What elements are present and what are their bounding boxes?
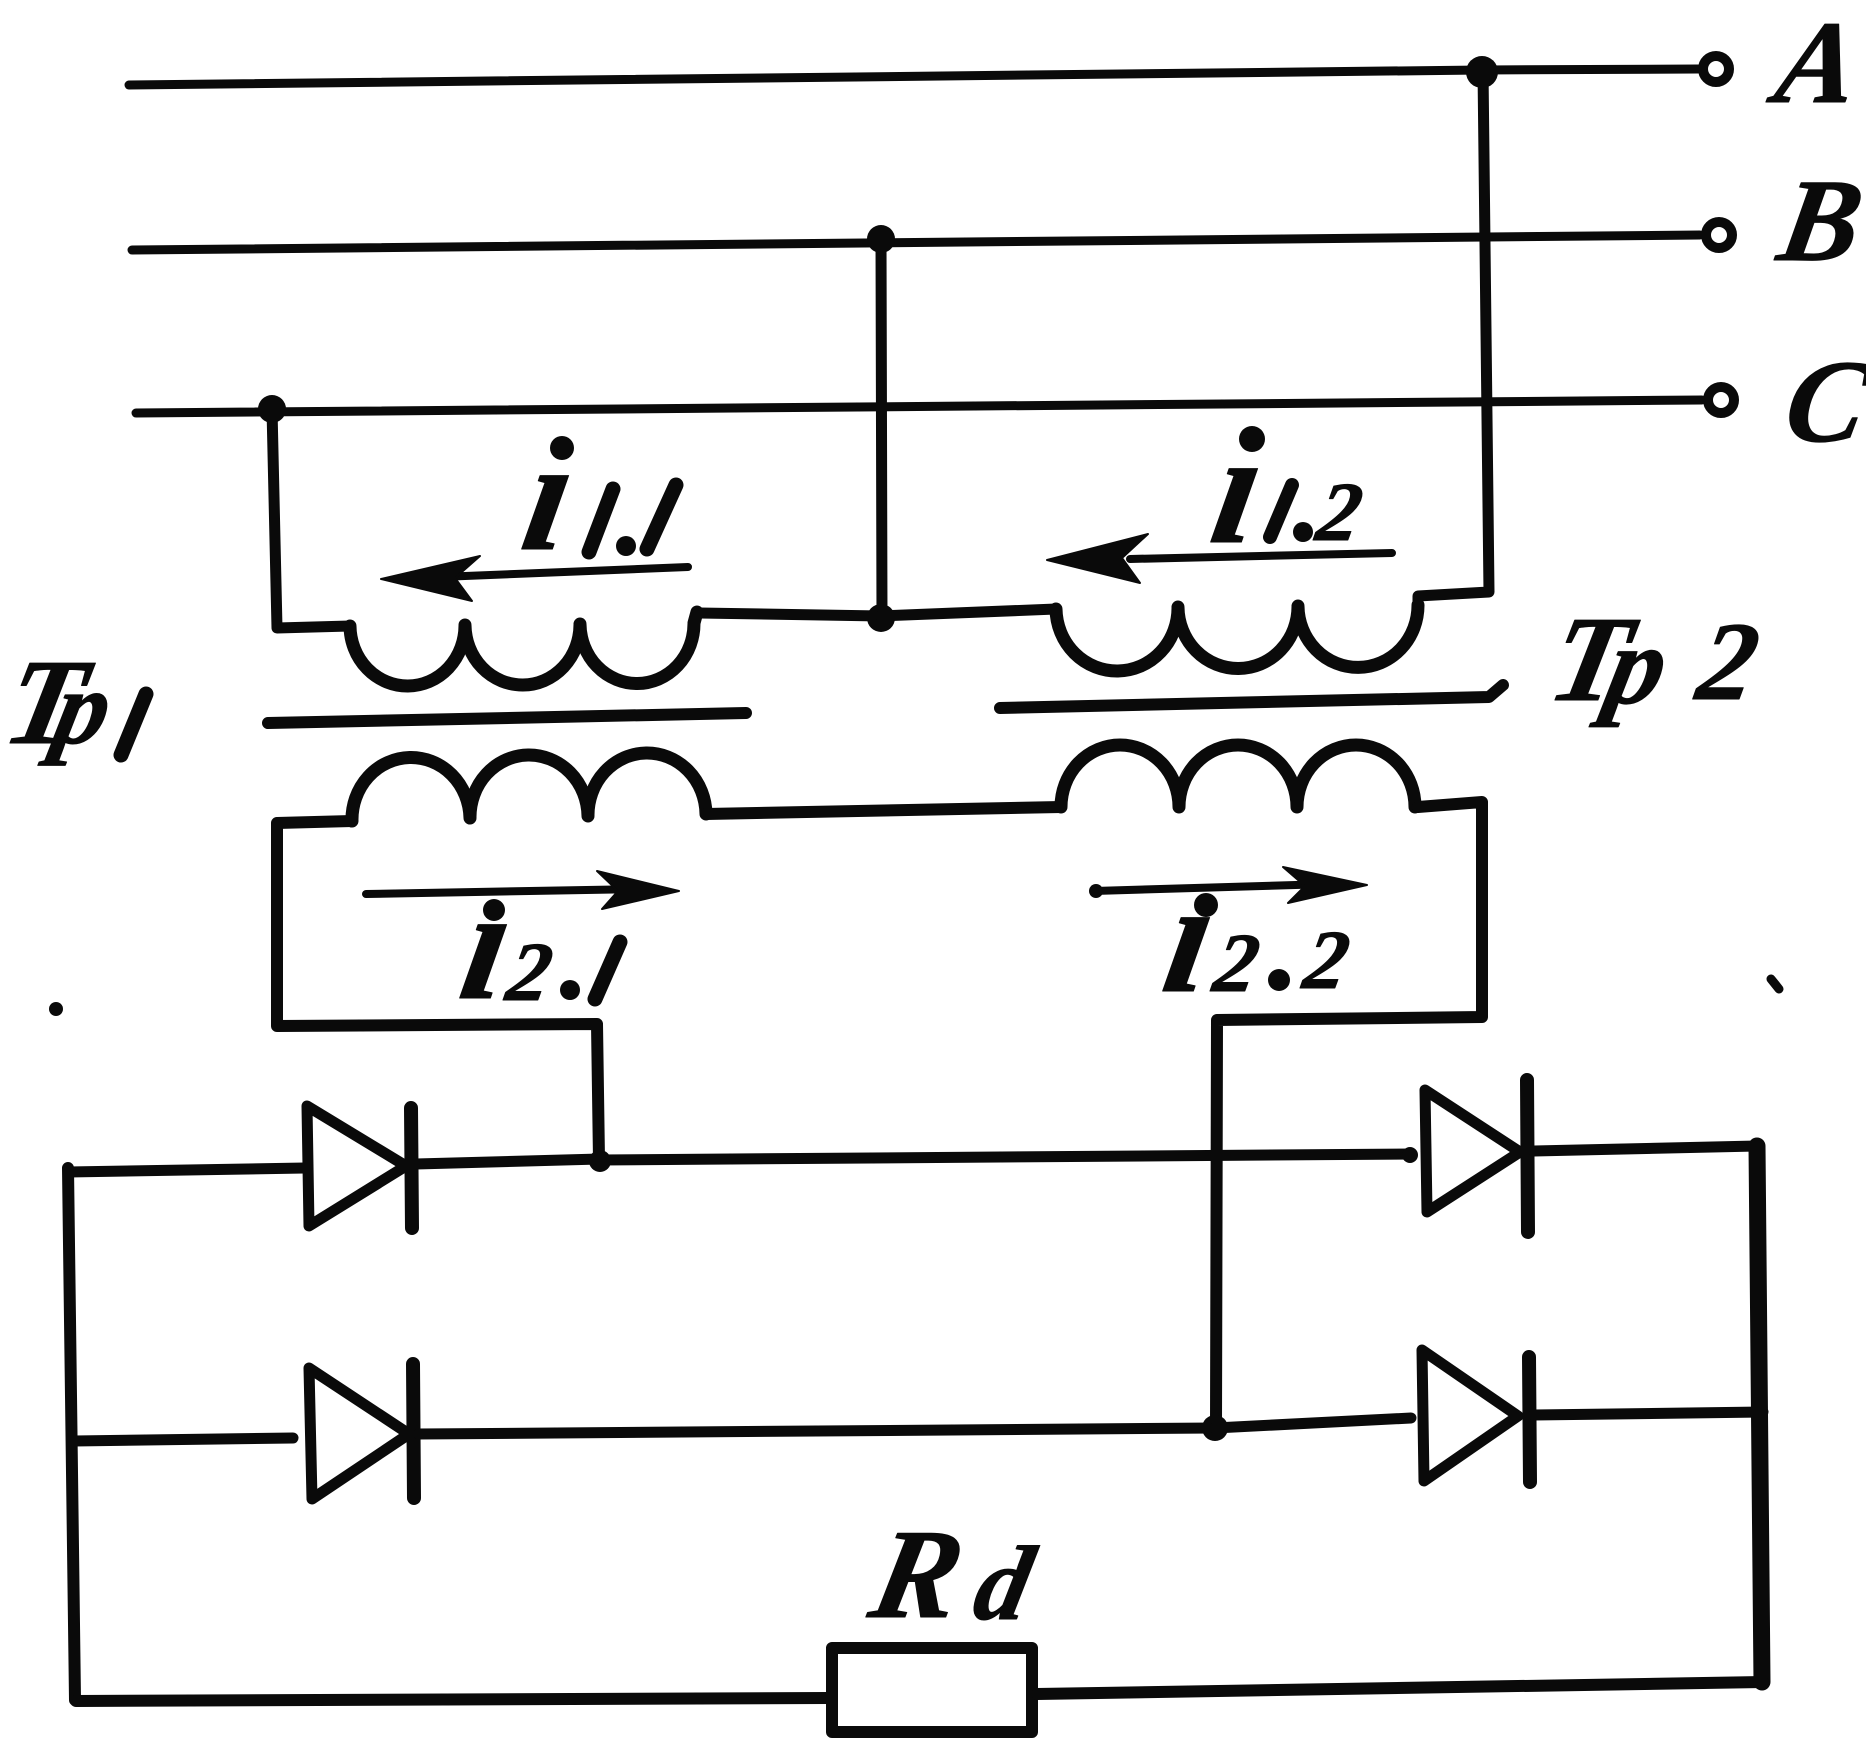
wire phase line C [136,400,1702,413]
wire Tp1 secondary left leg [277,821,599,1160]
wire between secondaries [706,807,1061,814]
wire right rail [1757,1146,1762,1682]
wire diode row 2 left [74,1438,293,1441]
core line Tp1 [268,713,746,723]
wire diode row 1 left [68,1168,305,1172]
svg-text:2: 2 [1688,600,1768,724]
svg-text:2: 2 [1206,918,1266,1010]
svg-text:2: 2 [1309,467,1369,559]
wire bottom left [76,1698,829,1701]
wire A to terminal [1482,69,1698,70]
wire D4 to right rail [1534,1412,1763,1415]
wire D1 to junction [416,1159,600,1164]
wire Tp1 primary to node B [699,613,881,616]
diode D4 [1422,1350,1518,1481]
svg-text:2: 2 [1296,915,1356,1007]
diode D3 [1425,1090,1520,1212]
wire row2 to D4 [1215,1418,1411,1428]
wire D2 to junction [419,1428,1215,1434]
svg-text:A: A [1761,0,1866,128]
secondary winding Tp1 [352,753,706,821]
junction at Tp1/Tp2 primary node [867,604,895,632]
wire Tp2 secondary right leg [1216,802,1482,1427]
svg-text:ı: ı [1201,399,1277,577]
svg-text:B: B [1768,155,1866,286]
current arrow i1.1 [440,567,688,577]
primary winding Tp1 [350,612,697,686]
wire from A junction down to Tp2 primary [1418,70,1489,605]
diode D1 [307,1106,406,1226]
junction row1 / Tp1 secondary [589,1150,611,1172]
primary winding Tp2 [1056,605,1418,671]
terminal A [1703,56,1729,82]
svg-text:R: R [859,1503,975,1644]
svg-text:C: C [1776,336,1866,467]
current arrow i2.2 [1094,884,1330,891]
junction on line B [867,225,895,253]
wire phase line B [132,235,1700,250]
junction row2 / Tp2 secondary [1202,1415,1228,1441]
diode D2 [309,1368,409,1499]
stain tick artifact [1771,979,1779,989]
core line Tp2 [1000,685,1503,708]
wire left rail [68,1168,75,1700]
wire from B junction down to node between coils [881,239,882,619]
current arrow i2.1 [366,889,640,894]
junction on line C [258,395,286,423]
svg-text:ı: ı [512,406,588,584]
wire from C junction down to Tp1 primary [272,409,350,628]
wire bottom right [1037,1682,1763,1694]
wire node B to Tp2 primary [881,609,1056,616]
terminal B [1706,222,1732,248]
junction on line A [1466,56,1498,88]
svg-text:d: d [965,1525,1044,1643]
stain dot artifact [49,1002,63,1016]
secondary winding Tp2 [1061,745,1415,807]
wire phase line A [129,70,1482,85]
resistor Rd [832,1648,1032,1732]
wire row1 middle [600,1154,1412,1160]
current arrow i1.2 [1130,553,1392,559]
wire D3 to right rail [1534,1146,1757,1151]
terminal C [1708,387,1734,413]
